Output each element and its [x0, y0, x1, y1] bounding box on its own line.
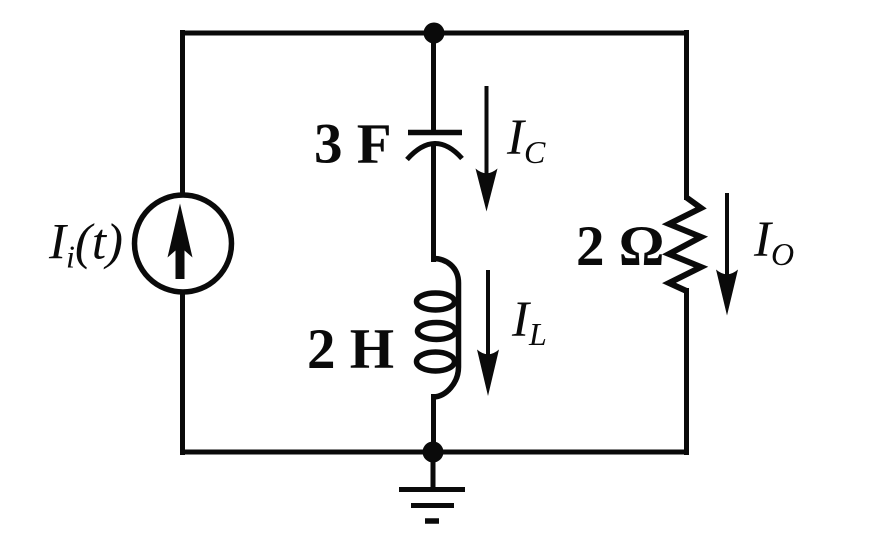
wire middle upper (top node to capacitor) [431, 30, 436, 131]
ground bar 1 [399, 487, 465, 492]
ground bar 2 [411, 503, 454, 508]
node bottom junction dot [423, 442, 444, 463]
inductor L loop 2 [418, 323, 456, 340]
wire left vertical upper [180, 30, 185, 195]
resistor R zigzag [669, 198, 701, 292]
current source arrow (points up) [168, 204, 193, 280]
inductor L loop 1 [417, 293, 455, 310]
current arrow IL head [477, 350, 499, 397]
wire middle between capacitor and inductor [431, 143, 436, 262]
wire right vertical lower [684, 288, 689, 455]
svg-text:2 H: 2 H [307, 318, 394, 381]
current arrow IO shaft [725, 193, 729, 288]
current arrow IC head [476, 169, 498, 212]
current arrow IL shaft [486, 270, 490, 368]
current arrow IO head [716, 270, 738, 316]
svg-text:IO: IO [753, 212, 794, 272]
ground stub wire [431, 452, 436, 487]
current arrow IC shaft [485, 86, 489, 186]
wire bottom horizontal [180, 450, 689, 455]
capacitor C bottom curved plate [407, 143, 462, 159]
svg-text:3 F: 3 F [314, 113, 392, 176]
inductor L coil right bulge [434, 259, 459, 398]
svg-text:Ii(t): Ii(t) [48, 215, 123, 275]
wire right vertical upper [684, 30, 689, 200]
svg-text:IL: IL [511, 292, 547, 352]
wire top horizontal [180, 31, 689, 36]
wire left vertical lower [180, 292, 185, 455]
node top junction dot [424, 23, 445, 44]
wire middle lower (inductor to bottom node) [431, 394, 436, 455]
current source Ii(t) circle [135, 195, 232, 292]
svg-text:2 Ω: 2 Ω [576, 215, 664, 278]
capacitor C top plate [408, 130, 462, 136]
svg-text:IC: IC [506, 110, 546, 170]
inductor L loop 3 [417, 352, 455, 371]
ground bar 3 [425, 518, 439, 524]
